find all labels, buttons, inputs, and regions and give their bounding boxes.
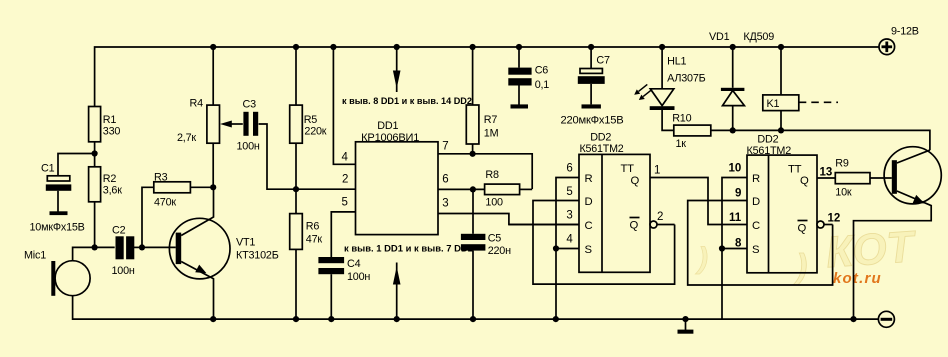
DD1 pin 5 [331, 197, 355, 258]
svg-text:АЛ307Б: АЛ307Б [667, 73, 706, 85]
svg-text:R2: R2 [103, 173, 117, 185]
ground at C7 [582, 104, 601, 108]
svg-text:C4: C4 [347, 258, 361, 270]
svg-text:2: 2 [657, 211, 663, 223]
DD1 pin 7 [438, 141, 532, 190]
svg-text:КТ3102Б: КТ3102Б [236, 250, 279, 262]
capacitor C5 [461, 189, 511, 319]
node: rail/R7 junction [470, 44, 476, 50]
relay K1 [763, 47, 838, 130]
resistor R5 [290, 47, 327, 189]
svg-text:R1: R1 [103, 114, 117, 126]
node: rail/K1 junction [778, 44, 784, 50]
svg-text:R: R [752, 173, 760, 185]
svg-text:VT1: VT1 [236, 237, 255, 249]
node: R8/C5/DD1 pin6 junction [470, 186, 476, 192]
DD1 pin 3 [438, 198, 579, 225]
svg-text:8: 8 [735, 238, 742, 250]
node: rail/C6 junction [516, 44, 522, 50]
svg-text:470к: 470к [154, 197, 176, 209]
wire: bottom 0V rail [73, 296, 879, 319]
resistor R7 [466, 47, 498, 154]
svg-text:9: 9 [735, 188, 741, 200]
svg-text:VD1: VD1 [709, 31, 730, 43]
svg-text:К561ТМ2: К561ТМ2 [747, 145, 792, 157]
node: C2/R3/VT1 base junction [139, 187, 176, 250]
IC DD2.1 K561TM2 flip-flop [579, 131, 650, 272]
node: R2/C2/Mic junction [92, 244, 115, 250]
node: R3/R4/VT1 collector junction [210, 184, 216, 190]
svg-text:1к: 1к [676, 138, 687, 150]
svg-text:3: 3 [442, 198, 448, 210]
svg-text:9-12В: 9-12В [891, 26, 919, 38]
svg-text:C: C [752, 220, 760, 232]
DD2.1 pin 1 (Q) [650, 165, 747, 225]
svg-text:100н: 100н [237, 141, 260, 153]
svg-text:5: 5 [342, 197, 348, 209]
svg-text:10мкФх15В: 10мкФх15В [30, 222, 85, 234]
svg-text:kot.ru: kot.ru [833, 270, 882, 287]
node: rail/R6 junction [293, 316, 299, 322]
resistor R8 [485, 169, 533, 209]
node: K1/output collector junction [778, 127, 930, 150]
node: R5/R6/C3/DD1 pin2 junction [293, 186, 356, 192]
svg-text:2,7к: 2,7к [177, 132, 196, 144]
DD2.2 pin 12 (Q-bar) [817, 213, 840, 229]
svg-text:R9: R9 [835, 158, 849, 170]
svg-text:C5: C5 [488, 233, 502, 245]
DD1 pin 2 [342, 174, 348, 186]
svg-text:11: 11 [729, 212, 742, 224]
svg-text:100н: 100н [112, 265, 135, 277]
DD2.1 pin 2 (Q-bar) [650, 211, 675, 228]
svg-text:DD2: DD2 [757, 134, 778, 146]
svg-text:330: 330 [103, 126, 121, 138]
potentiometer R4 [177, 47, 243, 187]
svg-text:10к: 10к [835, 187, 852, 199]
svg-text:HL1: HL1 [667, 56, 686, 68]
node: rail/R5 junction [293, 44, 299, 50]
capacitor C4 [318, 257, 370, 319]
svg-text:4: 4 [342, 152, 349, 164]
svg-text:DD1: DD1 [377, 120, 398, 132]
svg-text:к выв. 1 DD1 и к выв. 7 DD2: к выв. 1 DD1 и к выв. 7 DD2 [344, 244, 473, 255]
note: к выв. 1 DD1 и к выв. 7 DD2 [344, 244, 473, 255]
node: rail/C5 junction [470, 316, 476, 322]
resistor R10 [672, 113, 733, 151]
capacitor C1 [41, 163, 71, 212]
resistor R1 [89, 107, 121, 154]
svg-text:10: 10 [729, 163, 742, 175]
svg-text:220н: 220н [488, 245, 511, 257]
node: R7/DD1 pin7 junction [470, 151, 476, 157]
svg-text:TT: TT [788, 164, 802, 176]
svg-text:): ) [793, 248, 807, 286]
svg-text:12: 12 [828, 213, 841, 225]
IC DD1 KR1006VI1 (555) [356, 120, 439, 235]
value label C1 [30, 222, 85, 234]
svg-text:13: 13 [820, 167, 833, 179]
svg-text:5: 5 [566, 186, 572, 198]
svg-text:C2: C2 [112, 225, 126, 237]
watermark KOT logo [695, 222, 918, 287]
svg-text:C1: C1 [41, 163, 55, 175]
svg-text:К561ТМ2: К561ТМ2 [580, 143, 624, 155]
svg-text:D: D [585, 196, 593, 208]
svg-text:100н: 100н [347, 271, 370, 283]
transistor VT1 KT3102B [169, 187, 278, 319]
DD2.1 pin 5 (D) [533, 186, 675, 284]
node: R1/R2/C1 junction [58, 150, 98, 175]
svg-text:C6: C6 [535, 65, 549, 77]
svg-text:0,1: 0,1 [535, 79, 550, 91]
svg-text:Q: Q [631, 175, 640, 187]
svg-text:C7: C7 [596, 55, 610, 67]
capacitor C7 [578, 47, 610, 104]
svg-text:C3: C3 [243, 99, 257, 111]
DD2.2 pin 10 (R) [722, 163, 747, 320]
svg-text:3: 3 [566, 210, 572, 222]
resistor R9 [835, 158, 892, 199]
node: rail/C7 junction [588, 44, 594, 50]
svg-text:220мкФх15В: 220мкФх15В [561, 115, 624, 127]
svg-text:D: D [752, 196, 760, 208]
svg-text:Mic1: Mic1 [24, 250, 46, 262]
svg-text:S: S [585, 244, 593, 256]
svg-text:R5: R5 [304, 114, 318, 126]
DD2.2 pin 11 (C) [729, 212, 742, 224]
node: rail/DD2.1 S junction [553, 316, 559, 322]
svg-text:Q: Q [798, 223, 807, 235]
capacitor C6 [508, 47, 549, 105]
svg-text:Q: Q [630, 220, 639, 232]
value label C7 [561, 115, 624, 127]
node: rail/HL1 junction [659, 44, 665, 50]
svg-text:R10: R10 [672, 113, 691, 125]
ground at C6 [511, 104, 529, 108]
svg-text:R: R [585, 173, 593, 185]
terminal -0V [878, 311, 894, 327]
svg-text:DD2: DD2 [590, 131, 611, 143]
svg-text:K1: K1 [767, 98, 780, 110]
IC DD2.2 K561TM2 flip-flop [747, 134, 818, 273]
DD2.1 pin 3 (C) [509, 210, 579, 225]
resistor R3 [154, 172, 213, 209]
wire: top +9..12V rail [95, 47, 879, 107]
ground at C1 [50, 211, 68, 215]
svg-text:1: 1 [654, 165, 660, 177]
node: rail/R4 junction [210, 44, 216, 50]
DD1 pin 4 [333, 47, 355, 164]
resistor R6 [290, 189, 323, 319]
DD2.1 pin 6 (R) [556, 163, 579, 320]
arrow from bottom rail to DD1 pin1 / DD2 pin7 [393, 263, 401, 320]
capacitor C2 [112, 225, 143, 278]
svg-text:R3: R3 [154, 172, 168, 184]
node: rail/VD1 junction [730, 44, 736, 50]
node: rail/output emitter junction [850, 316, 856, 322]
node: R10/VD1 junction [730, 127, 781, 133]
node: rail/supply-arrow junction [394, 44, 400, 50]
node: rail/ground junction [682, 316, 688, 322]
node: DD2.1 S/R ground junction [553, 245, 559, 251]
ground symbol on bottom rail [678, 319, 694, 334]
svg-text:R6: R6 [306, 221, 320, 233]
node: rail/DD1 pin4 junction [330, 44, 336, 50]
DD2.2 pin 8 (S) [722, 238, 747, 250]
DD1 pin 6 [438, 174, 485, 190]
svg-text:TT: TT [621, 163, 635, 175]
node: rail/VT1 emitter junction [210, 316, 216, 322]
note: к выв. 8 DD1 и к выв. 14 DD2 [342, 96, 472, 107]
resistor R2 [89, 154, 123, 248]
DD2.1 pin 4 (S) [556, 234, 579, 249]
svg-text:R8: R8 [485, 169, 499, 181]
node: rail/arrow junction [394, 316, 400, 322]
node: DD2.2 S/R ground junction [719, 245, 725, 251]
svg-text:R4: R4 [190, 98, 204, 110]
svg-text:к выв. 8 DD1 и к выв. 14 DD2: к выв. 8 DD1 и к выв. 14 DD2 [342, 96, 472, 107]
svg-text:47к: 47к [306, 234, 323, 246]
DD2.2 pin 9 (D) [688, 188, 833, 286]
svg-text:КД509: КД509 [743, 31, 774, 43]
svg-text:100: 100 [485, 197, 503, 209]
svg-text:1М: 1М [484, 128, 499, 140]
node: rail/C4 junction [328, 316, 334, 322]
diode VD1 KD509 [709, 31, 774, 130]
svg-text:7: 7 [442, 141, 448, 153]
svg-text:2: 2 [342, 174, 348, 186]
terminal +9-12V [879, 26, 919, 55]
svg-text:S: S [752, 244, 760, 256]
LED HL1 AL307B [634, 47, 705, 130]
DD2.2 pin 13 (Q) [817, 167, 835, 179]
capacitor C3 [237, 99, 297, 190]
svg-text:6: 6 [566, 163, 572, 175]
svg-text:6: 6 [442, 174, 448, 186]
supply arrow to DD1 pin8 / DD2 pin14 [393, 47, 401, 92]
svg-text:220к: 220к [304, 126, 326, 138]
svg-text:C: C [585, 220, 593, 232]
svg-text:4: 4 [566, 234, 573, 246]
svg-text:Q: Q [800, 175, 809, 187]
svg-text:3,6к: 3,6к [103, 185, 122, 197]
svg-text:R7: R7 [484, 114, 498, 126]
output transistor [854, 147, 942, 319]
svg-text:КР1006ВИ1: КР1006ВИ1 [361, 132, 419, 144]
microphone Mic1 [24, 247, 95, 295]
